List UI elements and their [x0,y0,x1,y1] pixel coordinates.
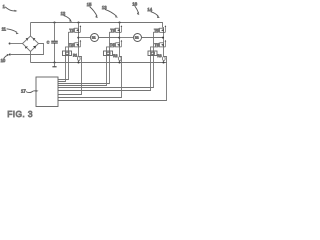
label 13 [102,5,118,18]
wire lower AC input [10,44,44,55]
AC input terminal lower [9,54,11,56]
label 15 [87,2,98,18]
wire R1 to bus [78,61,80,63]
svg-text:R3: R3 [157,54,161,58]
wire upper AC input [10,43,23,45]
wire bridge plus riser [30,23,32,37]
node cap top [53,21,55,23]
wire leg1 emitter [78,47,80,57]
driver box leg3 [148,51,157,56]
node leg3 bottom [162,61,164,63]
wire mid rail M2-leg3 [141,37,163,39]
wire cap branch lower [54,44,56,63]
wire leg2 sense [58,57,122,98]
label 16 [132,1,139,15]
svg-text:R2: R2 [113,54,117,58]
wire leg1 sense [58,57,82,95]
svg-text:15: 15 [87,2,92,7]
node leg1 top [77,21,79,23]
driver box leg1 [63,51,72,56]
wire leg2 emitter [119,47,121,57]
resistor R1 [77,57,80,61]
controller block 17 [36,77,58,107]
node leg1 bottom [77,61,79,63]
wire T5 gate [58,32,159,87]
node leg2 mid [118,37,120,39]
bridge diode D-topleft [26,38,28,41]
bridge diode D-topright [33,38,35,41]
svg-text:14: 14 [147,7,152,12]
svg-text:12: 12 [61,11,66,16]
bridge diode D-bottomleft [25,46,28,48]
node leg1 mid [77,37,79,39]
svg-text:M2: M2 [135,36,139,40]
label 11 [2,26,19,34]
wire mid rail M1-leg2 [98,37,119,39]
transistor T1 [74,25,82,32]
resistor R2 [118,57,121,61]
svg-text:11: 11 [2,26,7,31]
transistor T5 [159,25,167,32]
wire R2 to bus [119,61,121,63]
wire T4 gate [58,47,115,86]
label 12 [61,11,73,22]
wire mid rail leg1-M1 [79,37,91,39]
wire bridge minus riser [30,52,32,63]
node cap bottom [53,61,55,63]
driver box leg2 [104,51,113,56]
wire T3 gate [58,32,115,83]
wire bottom bus [31,62,168,64]
svg-text:10: 10 [1,58,6,63]
wire T1 gate [58,32,74,79]
label 17 [21,89,39,94]
wire T6 gate [58,47,159,91]
svg-text:17: 17 [21,89,26,94]
wire leg3 emitter [163,47,165,57]
wire leg3 vertical [163,27,165,47]
capacitor C [51,41,58,43]
node leg3 mid [162,37,164,39]
wire R3 to bus [163,61,165,63]
transistor T3 [115,25,123,32]
transistor T6 [159,40,167,47]
node leg2 top [118,21,120,23]
transistor T2 [74,40,82,47]
label 1 [3,4,18,12]
wire leg3 sense [58,57,167,101]
transistor T4 [115,40,123,47]
svg-text:M1: M1 [92,36,96,40]
wire T2 gate [58,47,74,82]
svg-text:FIG. 3: FIG. 3 [7,109,33,119]
resistor R3 [162,57,165,61]
svg-text:13: 13 [102,5,107,10]
bridge diode D-bottomright [33,46,36,49]
wire cap branch upper [54,23,56,41]
wire leg2 vertical [119,23,121,48]
bridge rectifier diamond [23,36,39,52]
svg-text:1: 1 [3,4,6,9]
label 10 [1,54,10,63]
svg-text:C: C [47,40,50,44]
node leg2 bottom [118,61,120,63]
AC input terminal upper [9,43,11,45]
ground [54,63,56,67]
label 14 [147,7,160,18]
motor winding M1 [91,34,99,42]
svg-text:16: 16 [132,1,137,6]
svg-text:R1: R1 [73,54,77,58]
motor winding M2 [134,34,142,42]
wire leg1 vertical [78,23,80,48]
wire mid rail leg2-M2 [120,37,134,39]
wire top bus [31,23,163,28]
